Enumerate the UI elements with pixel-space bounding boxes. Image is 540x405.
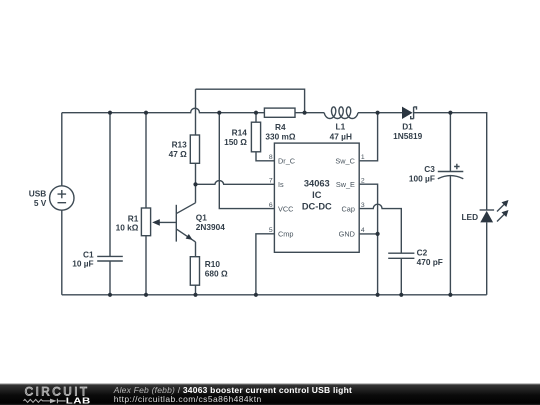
svg-text:Sw_C: Sw_C <box>335 156 354 165</box>
svg-text:10 kΩ: 10 kΩ <box>116 223 139 233</box>
svg-text:GND: GND <box>339 230 355 239</box>
svg-text:2N3904: 2N3904 <box>196 222 225 232</box>
svg-text:7: 7 <box>269 178 273 185</box>
svg-text:IC: IC <box>312 190 322 200</box>
svg-text:Sw_E: Sw_E <box>336 180 355 189</box>
svg-text:Cmp: Cmp <box>278 230 293 239</box>
svg-text:Cap: Cap <box>342 204 355 213</box>
svg-text:150 Ω: 150 Ω <box>224 137 247 147</box>
svg-text:47 µH: 47 µH <box>330 131 352 141</box>
svg-text:D1: D1 <box>402 122 413 132</box>
svg-text:1: 1 <box>361 154 365 161</box>
svg-text:DC-DC: DC-DC <box>302 201 332 211</box>
svg-text:5: 5 <box>269 227 273 234</box>
svg-text:6: 6 <box>269 202 273 209</box>
svg-text:34063: 34063 <box>304 179 330 189</box>
svg-text:3: 3 <box>361 202 365 209</box>
svg-text:http://circuitlab.com/cs5a86h4: http://circuitlab.com/cs5a86h484ktn <box>114 394 262 404</box>
svg-text:330 mΩ: 330 mΩ <box>265 131 296 141</box>
svg-text:470 pF: 470 pF <box>417 257 443 267</box>
svg-text:1N5819: 1N5819 <box>393 131 422 141</box>
svg-text:10 µF: 10 µF <box>72 259 93 269</box>
svg-text:L1: L1 <box>336 121 346 131</box>
svg-text:LED: LED <box>461 212 478 222</box>
svg-text:Is: Is <box>278 180 284 189</box>
svg-text:5 V: 5 V <box>34 198 47 208</box>
svg-text:4: 4 <box>361 227 365 234</box>
svg-text:R4: R4 <box>275 122 286 132</box>
svg-text:R14: R14 <box>232 128 248 138</box>
svg-text:VCC: VCC <box>278 204 293 213</box>
svg-text:Dr_C: Dr_C <box>278 156 295 165</box>
svg-text:680 Ω: 680 Ω <box>205 268 228 278</box>
svg-text:LAB: LAB <box>66 397 91 405</box>
svg-text:100 µF: 100 µF <box>409 174 435 184</box>
svg-text:2: 2 <box>361 178 365 185</box>
svg-text:8: 8 <box>269 154 273 161</box>
svg-text:47 Ω: 47 Ω <box>169 149 188 159</box>
svg-text:Q1: Q1 <box>196 212 207 222</box>
